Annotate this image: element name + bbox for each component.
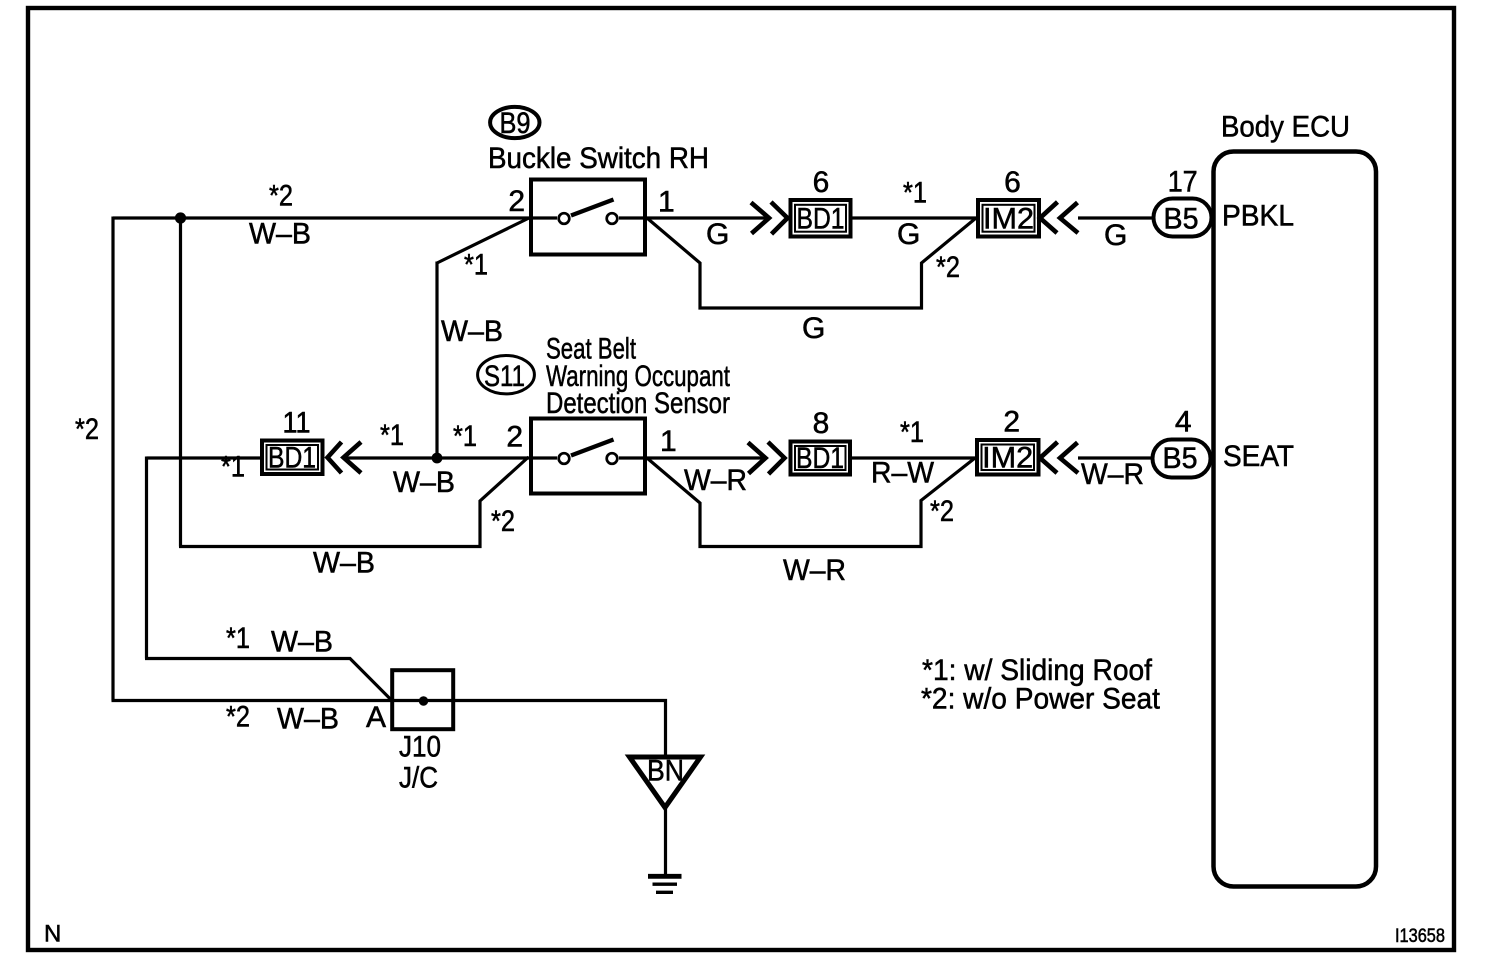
- svg-text:17: 17: [1168, 166, 1198, 199]
- svg-text:Detection Sensor: Detection Sensor: [546, 387, 730, 420]
- svg-text:*2: *2: [930, 495, 954, 528]
- node dot inside J10: [419, 696, 428, 705]
- wire stub left inside buckle switch: [531, 216, 557, 219]
- svg-text:B5: B5: [1163, 442, 1198, 475]
- wire stub right inside buckle switch: [619, 216, 645, 219]
- svg-text:BN: BN: [647, 755, 684, 788]
- sensor contact circle left: [559, 453, 570, 464]
- svg-text:W–B: W–B: [313, 547, 375, 580]
- svg-text:1: 1: [658, 186, 675, 219]
- svg-text:Body ECU: Body ECU: [1221, 111, 1350, 144]
- ground symbol: [648, 874, 682, 879]
- wire stub left inside sensor: [531, 456, 557, 459]
- chevrons into mid BD1 (8): [748, 442, 785, 474]
- svg-text:1: 1: [660, 425, 677, 458]
- connector BD1 top: [791, 200, 851, 237]
- svg-text:*2: *2: [936, 251, 960, 284]
- sensor S11 box: [531, 419, 645, 494]
- connector IM2 top: [978, 200, 1039, 237]
- svg-text:PBKL: PBKL: [1222, 200, 1294, 233]
- wire: top G bypass *2: [647, 218, 976, 308]
- svg-text:W–B: W–B: [441, 315, 503, 348]
- junction box J10: [392, 670, 453, 729]
- svg-text:G: G: [1104, 219, 1127, 252]
- svg-text:4: 4: [1175, 405, 1192, 438]
- svg-text:6: 6: [1004, 166, 1021, 199]
- wire: top IM2 chevrons to B5: [1078, 216, 1152, 219]
- svg-text:I13658: I13658: [1395, 926, 1445, 947]
- node: junction dot on top wire: [175, 212, 186, 223]
- svg-text:B9: B9: [500, 107, 531, 140]
- svg-text:BD1: BD1: [796, 442, 844, 475]
- svg-text:N: N: [44, 921, 61, 948]
- svg-text:G: G: [706, 218, 729, 251]
- switch contact circle left: [559, 213, 570, 224]
- connector BD1 left (11): [262, 441, 323, 475]
- sensor lever: [571, 440, 614, 456]
- wire: vertical from top junction down to left bypass: [179, 218, 182, 547]
- svg-text:W–B: W–B: [271, 626, 333, 659]
- svg-text:J/C: J/C: [399, 762, 438, 795]
- wire: left vertical *2 from top wire down to J10 wire: [111, 217, 114, 701]
- node: junction dot on middle wire: [432, 453, 443, 464]
- svg-text:G: G: [802, 312, 825, 345]
- wire: mid IM2 chevrons to B5(4): [1078, 456, 1151, 459]
- wire: top BD1 to IM2: [853, 216, 977, 219]
- wire: middle row from left corner to BD1(11): [147, 456, 261, 459]
- connector B5 mid (stadium): [1153, 440, 1211, 478]
- wire stub right inside sensor: [619, 456, 645, 459]
- wire: vertical W-B *1 down to middle row: [435, 262, 438, 459]
- ground triangle BN: [630, 757, 701, 808]
- wire: top W-B horizontal from left corner to buckle switch pin 2: [113, 216, 529, 219]
- svg-text:BD1: BD1: [797, 203, 845, 236]
- svg-text:*2: *2: [269, 180, 293, 213]
- connector oval S11: [478, 356, 535, 394]
- wire: J10 *2 horizontal through junction box to ground drop: [112, 701, 666, 756]
- svg-text:*2: *2: [75, 413, 99, 446]
- wire: mid BD1(8) to IM2(2): [852, 456, 975, 459]
- svg-text:2: 2: [506, 421, 523, 454]
- svg-text:W–R: W–R: [1081, 458, 1144, 491]
- svg-text:*1: *1: [900, 416, 924, 449]
- svg-text:*1: *1: [903, 177, 927, 210]
- svg-text:*1: *1: [221, 451, 245, 484]
- svg-text:*1: *1: [453, 420, 477, 453]
- svg-text:8: 8: [813, 407, 830, 440]
- svg-text:*2: *2: [491, 505, 515, 538]
- buckle switch B9 box: [531, 180, 645, 255]
- svg-text:W–B: W–B: [249, 218, 311, 251]
- connector oval B9: [490, 107, 539, 138]
- svg-text:S11: S11: [484, 360, 525, 393]
- wire: left vertical *1 from BD1 wire down: [145, 457, 148, 659]
- wire: S11 pin 1 to right chevrons: [647, 456, 766, 459]
- connector B5 top (stadium): [1154, 199, 1212, 237]
- chevrons out of BD1 (11): [328, 442, 362, 473]
- svg-text:W–B: W–B: [277, 703, 339, 736]
- svg-text:W–R: W–R: [684, 464, 747, 497]
- svg-text:*2: *2: [226, 700, 250, 733]
- wire: middle row from chevrons to S11 pin 2: [345, 456, 529, 459]
- wire: mid W-R bypass *2: [647, 458, 975, 547]
- switch contact circle right: [607, 213, 618, 224]
- sensor contact circle right: [607, 453, 618, 464]
- wire: J10 *1 horizontal and diagonal into junction: [145, 659, 392, 701]
- svg-text:2: 2: [1003, 405, 1020, 438]
- svg-text:6: 6: [813, 166, 830, 199]
- svg-text:*2: w/o Power Seat: *2: w/o Power Seat: [921, 683, 1161, 716]
- svg-text:W–R: W–R: [783, 554, 846, 587]
- svg-text:A: A: [366, 701, 386, 734]
- svg-text:SEAT: SEAT: [1223, 440, 1294, 473]
- svg-text:BD1: BD1: [268, 442, 316, 475]
- svg-text:R–W: R–W: [871, 456, 935, 489]
- wire: buckle switch pin 1 to right chevrons: [647, 216, 769, 219]
- svg-text:W–B: W–B: [393, 466, 455, 499]
- Body ECU box: [1214, 152, 1377, 887]
- chevrons out of top IM2: [1040, 202, 1078, 233]
- wire: left *2 bypass to S11 pin 2: [179, 457, 529, 547]
- svg-text:*1: *1: [380, 419, 404, 452]
- svg-text:Buckle Switch RH: Buckle Switch RH: [488, 142, 709, 175]
- svg-text:J10: J10: [399, 731, 441, 764]
- svg-text:11: 11: [283, 407, 311, 440]
- connector IM2 mid (2): [977, 440, 1039, 475]
- svg-text:*1: *1: [226, 622, 250, 655]
- svg-text:2: 2: [508, 185, 525, 218]
- chevrons into top BD1: [751, 202, 788, 234]
- svg-text:IM2: IM2: [983, 203, 1034, 236]
- switch lever: [571, 200, 614, 216]
- svg-text:IM2: IM2: [982, 442, 1033, 475]
- chevrons out of mid IM2: [1040, 442, 1078, 473]
- svg-text:*1: *1: [464, 249, 488, 282]
- svg-text:B5: B5: [1164, 203, 1199, 236]
- wire: BN to ground: [664, 808, 667, 874]
- wire: *1 diagonal from buckle switch pin 2 down to vertical W-B: [437, 218, 529, 263]
- svg-text:G: G: [897, 218, 920, 251]
- connector BD1 mid (8): [791, 442, 851, 475]
